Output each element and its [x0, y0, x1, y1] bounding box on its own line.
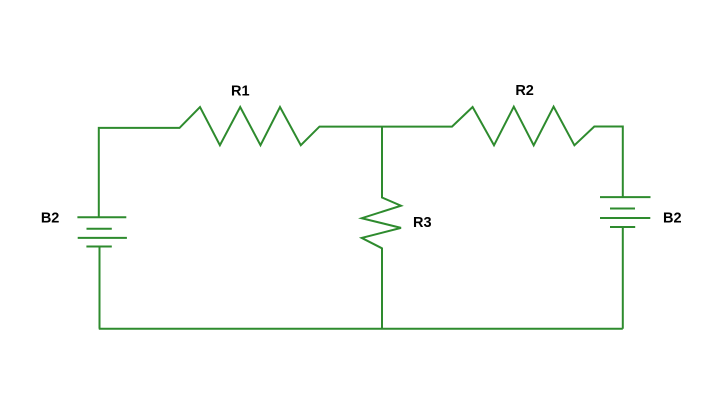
svg-text:R3: R3 — [413, 215, 432, 231]
svg-text:B2: B2 — [663, 211, 682, 227]
svg-text:B2: B2 — [41, 211, 60, 227]
svg-text:R1: R1 — [231, 83, 250, 99]
svg-text:R2: R2 — [515, 83, 534, 99]
